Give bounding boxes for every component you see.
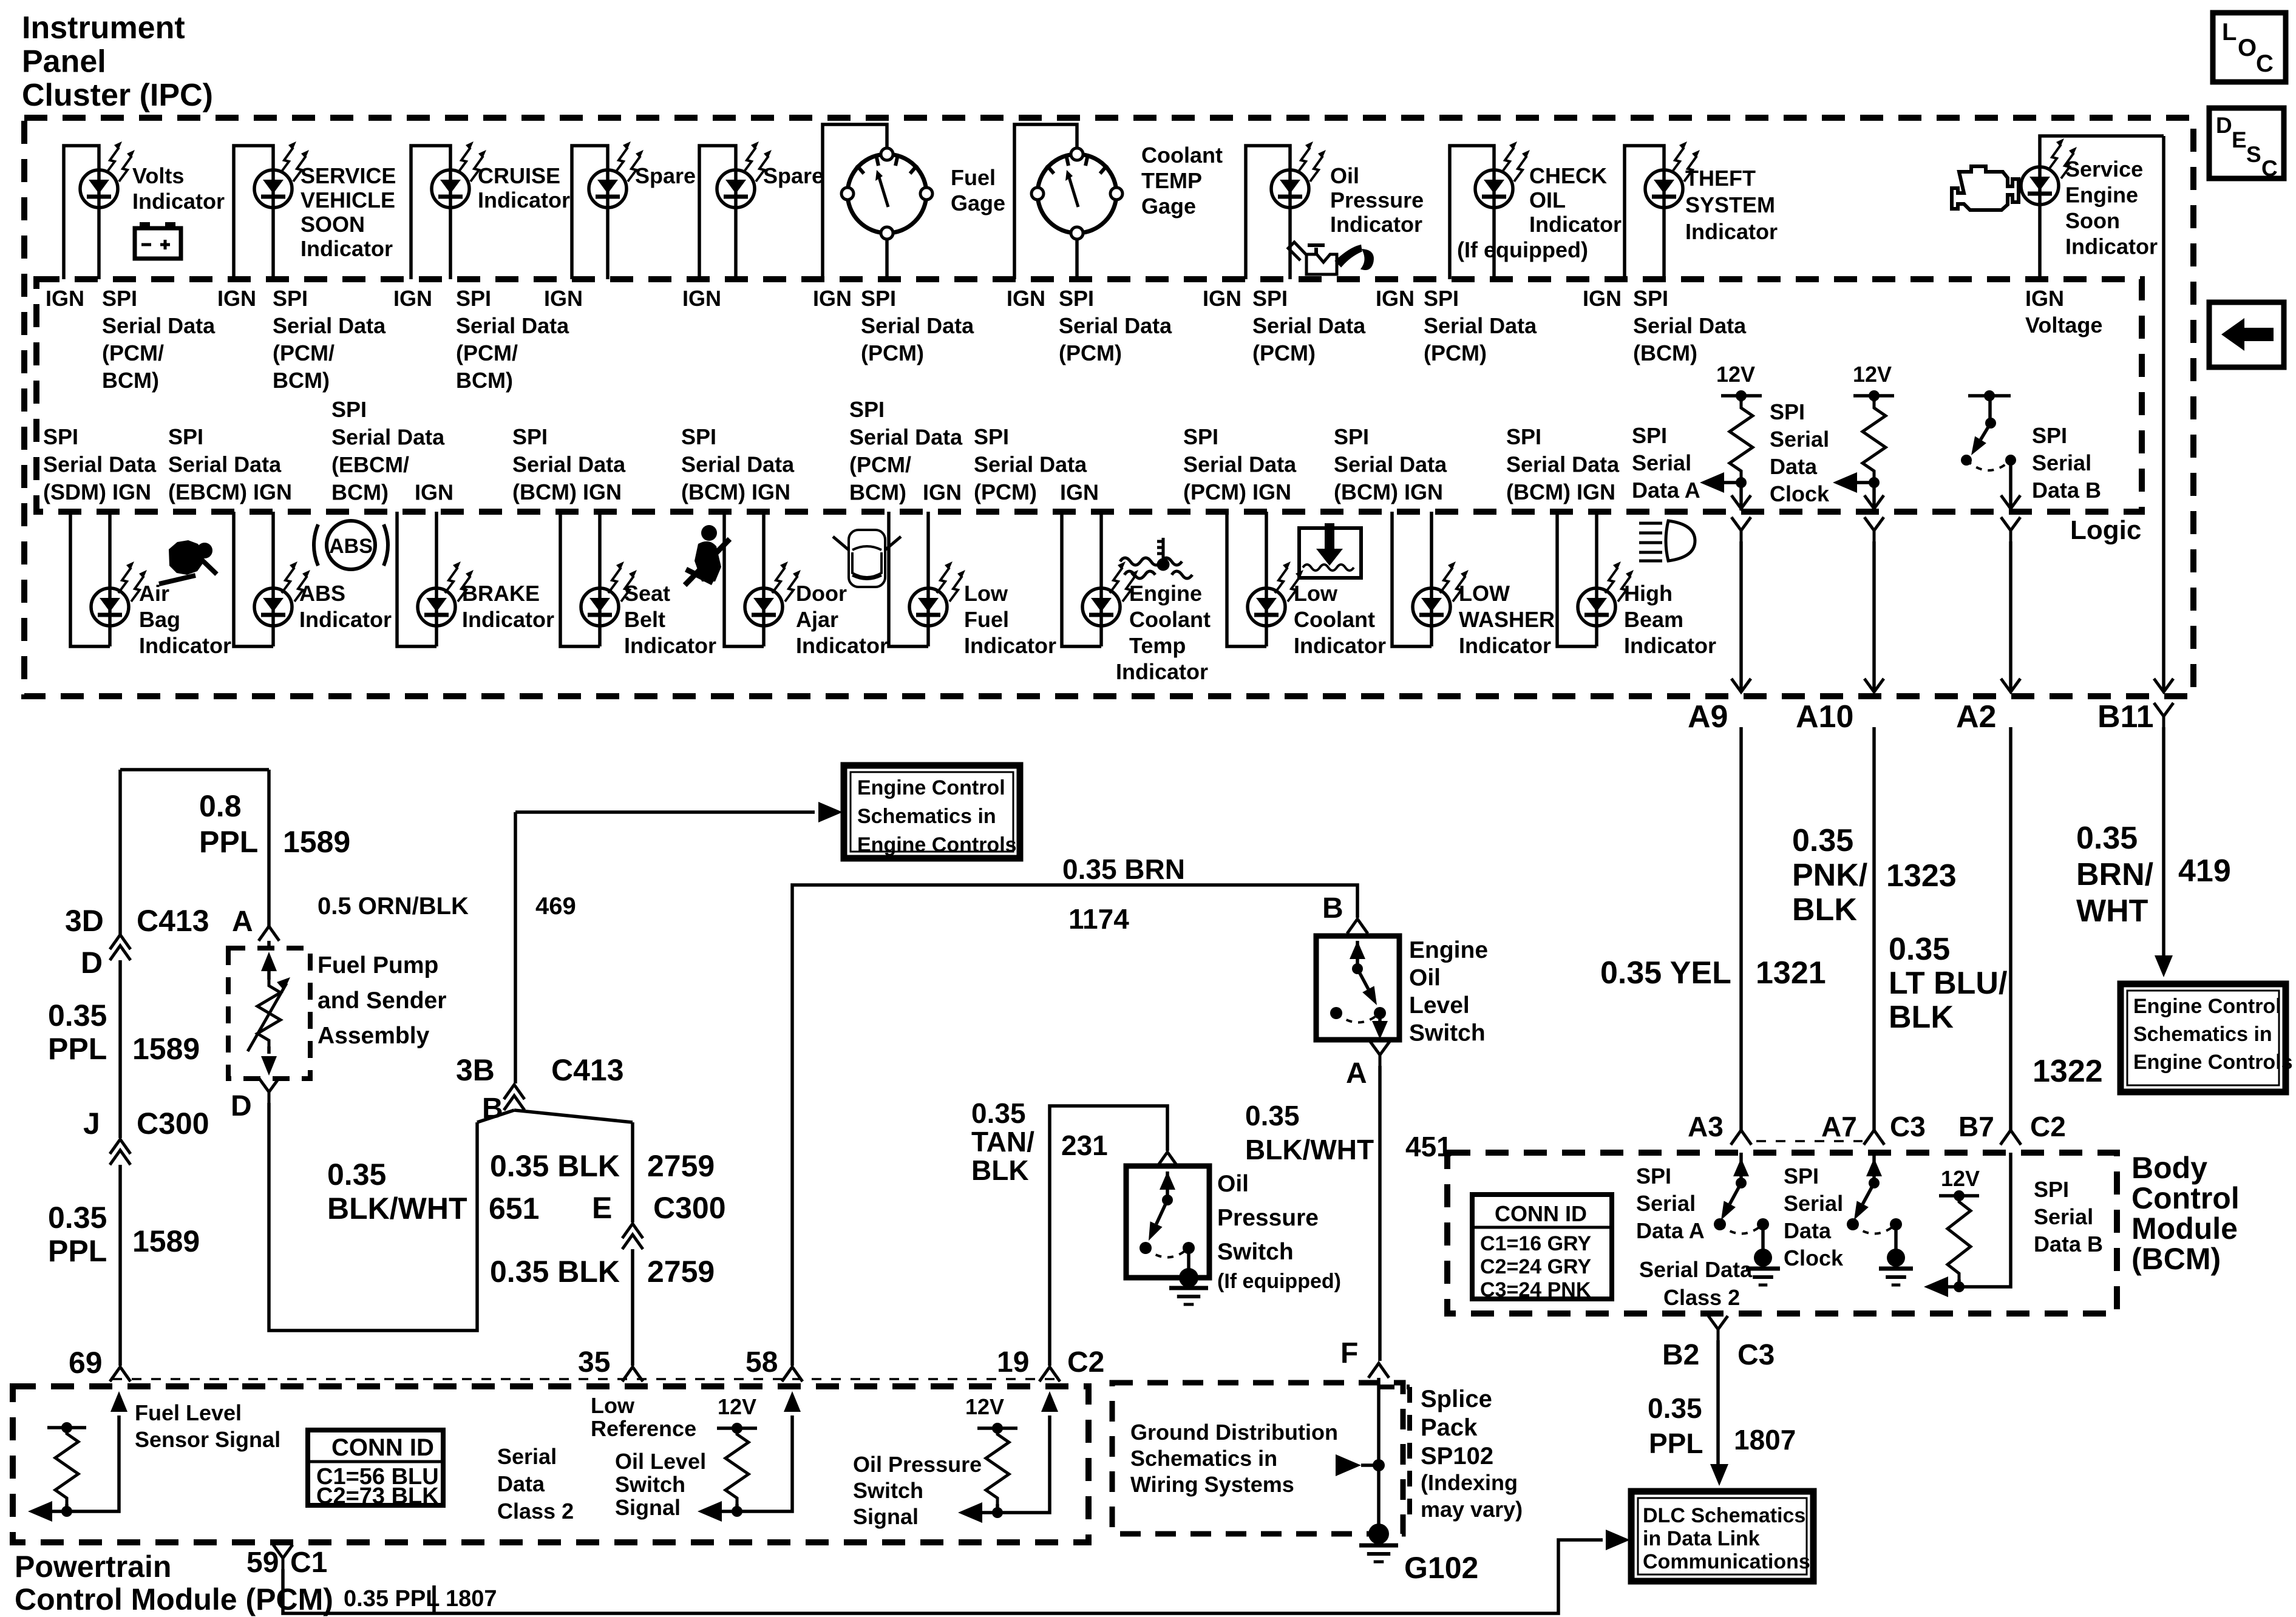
wire bracket Air Bag Indicator <box>70 512 110 646</box>
svg-text:IGN: IGN <box>1060 480 1099 505</box>
svg-text:Panel: Panel <box>22 44 106 80</box>
svg-text:C300: C300 <box>653 1191 726 1225</box>
wire 0.35 TAN/BLK 231 <box>1050 1106 1167 1366</box>
svg-text:BCM): BCM) <box>273 368 330 393</box>
svg-text:PPL: PPL <box>199 825 258 859</box>
wire 1807 PPL from BCM to DLC <box>1716 1340 1720 1457</box>
svg-text:(PCM): (PCM) <box>1252 341 1316 365</box>
svg-text:IGN: IGN <box>1007 286 1045 311</box>
svg-text:(BCM) IGN: (BCM) IGN <box>512 480 622 504</box>
svg-text:Indicator: Indicator <box>1116 659 1208 684</box>
svg-text:Serial Data: Serial Data <box>681 452 795 477</box>
svg-text:Schematics in: Schematics in <box>857 805 996 828</box>
svg-text:Soon: Soon <box>2065 208 2120 233</box>
LED Service Engine Soon <box>2021 167 2059 205</box>
LED Engine Coolant Temp Indicator <box>1082 588 1120 626</box>
LED ABS Indicator <box>254 588 292 626</box>
high beam icon <box>1639 521 1695 561</box>
svg-text:Data: Data <box>497 1471 545 1496</box>
svg-text:Coolant: Coolant <box>1129 607 1211 632</box>
svg-text:Ajar: Ajar <box>796 607 838 632</box>
svg-text:C: C <box>2261 156 2278 181</box>
svg-text:69: 69 <box>69 1346 103 1380</box>
wire bracket CHECK OIL Indicator <box>1450 146 1494 279</box>
wire 1807 label tick <box>432 1585 436 1613</box>
svg-text:SPI: SPI <box>1784 1164 1819 1188</box>
svg-text:0.35 BRN: 0.35 BRN <box>1062 853 1185 885</box>
battery icon <box>135 222 181 259</box>
svg-text:B11: B11 <box>2097 699 2154 734</box>
svg-text:C3: C3 <box>1737 1339 1775 1371</box>
wire fuel pump branch vertical <box>267 770 271 926</box>
svg-text:Signal: Signal <box>853 1504 919 1529</box>
svg-text:SOON: SOON <box>301 212 365 237</box>
wire A10 down <box>1872 483 1876 510</box>
svg-text:0.35: 0.35 <box>1792 823 1853 858</box>
oil pressure switch contacts <box>1160 1171 1175 1190</box>
wire bracket Volts Indicator <box>64 146 99 279</box>
svg-text:Gage: Gage <box>951 191 1005 215</box>
wire bracket Service Engine Soon Indicator <box>2040 136 2164 279</box>
svg-text:Serial Data: Serial Data <box>1252 313 1366 338</box>
svg-text:Fuel Pump: Fuel Pump <box>318 952 438 978</box>
svg-text:0.35: 0.35 <box>1889 932 1950 967</box>
svg-text:Oil Pressure: Oil Pressure <box>853 1452 982 1477</box>
svg-text:WASHER: WASHER <box>1459 607 1555 632</box>
svg-text:Engine Control: Engine Control <box>857 776 1005 799</box>
svg-text:IGN: IGN <box>46 286 84 311</box>
svg-text:Pressure: Pressure <box>1330 188 1424 212</box>
svg-text:Serial Data: Serial Data <box>1639 1257 1753 1282</box>
svg-text:SPI: SPI <box>1636 1164 1671 1188</box>
switch Serial Data Clock (in BCM) <box>1872 1153 1876 1183</box>
svg-text:B: B <box>1322 892 1343 924</box>
pin 59 connector <box>273 1545 293 1569</box>
svg-text:Belt: Belt <box>624 607 665 632</box>
IPC logic dashed box <box>36 279 2142 512</box>
ground Serial Data Clock <box>1894 1224 1898 1252</box>
svg-text:0.35 PPL: 0.35 PPL <box>344 1586 440 1612</box>
LED Spare indicator 2 <box>717 170 755 208</box>
svg-text:CHECK: CHECK <box>1529 163 1607 188</box>
wire 0.8 PPL bridge <box>120 768 269 771</box>
svg-text:Level: Level <box>1409 992 1470 1019</box>
lightning CRUISE Indicator <box>458 141 486 181</box>
svg-text:SPI: SPI <box>1334 424 1369 449</box>
svg-text:Serial Data: Serial Data <box>43 452 157 477</box>
ABS icon <box>314 521 388 569</box>
svg-text:SPI: SPI <box>512 424 548 449</box>
lightning THEFT SYSTEM Indicator <box>1671 141 1700 181</box>
wire A10 to BCM <box>1872 727 1876 1130</box>
svg-text:SPI: SPI <box>1632 423 1667 448</box>
svg-text:Body: Body <box>2131 1151 2207 1185</box>
wire B11 vertical (IGN voltage feed) <box>2162 136 2165 690</box>
svg-text:F: F <box>1340 1337 1358 1369</box>
svg-text:0.35: 0.35 <box>327 1158 386 1192</box>
svg-text:WHT: WHT <box>2076 893 2148 929</box>
svg-text:CONN ID: CONN ID <box>331 1434 434 1461</box>
svg-text:Serial Data: Serial Data <box>1183 452 1297 477</box>
svg-text:TEMP: TEMP <box>1141 168 1202 193</box>
svg-text:C300: C300 <box>137 1107 209 1141</box>
svg-text:Spare: Spare <box>635 163 696 188</box>
wire 0.8 PPL 1589 left vertical <box>118 770 122 935</box>
svg-text:Engine: Engine <box>2065 183 2138 208</box>
engine icon <box>1952 166 2019 210</box>
svg-text:CRUISE: CRUISE <box>478 163 560 188</box>
svg-text:E: E <box>592 1191 612 1225</box>
svg-text:A: A <box>1346 1057 1367 1090</box>
wire 451 into splice pack <box>1377 1378 1381 1530</box>
svg-text:Serial Data: Serial Data <box>861 313 974 338</box>
svg-text:THEFT: THEFT <box>1685 166 1756 191</box>
svg-text:C2: C2 <box>1067 1346 1104 1378</box>
svg-text:1322: 1322 <box>2033 1054 2103 1089</box>
svg-text:SPI: SPI <box>1633 286 1668 311</box>
fuel pump sender variable resistor <box>261 952 277 971</box>
svg-text:Control: Control <box>2131 1181 2240 1215</box>
lightning BRAKE Indicator <box>445 561 474 602</box>
svg-text:(PCM/: (PCM/ <box>102 341 164 365</box>
LED Seat Belt Indicator <box>581 588 619 626</box>
wire pin 19 internal <box>997 1415 1050 1513</box>
IPC outer dashed box <box>24 118 2193 696</box>
svg-text:Volts: Volts <box>132 163 184 188</box>
svg-text:Splice: Splice <box>1421 1386 1492 1412</box>
svg-text:Serial Data: Serial Data <box>273 313 386 338</box>
svg-text:C2=24 GRY: C2=24 GRY <box>1480 1255 1591 1278</box>
svg-text:IGN: IGN <box>217 286 256 311</box>
svg-text:ABS: ABS <box>329 535 373 558</box>
svg-text:3D: 3D <box>65 904 104 938</box>
svg-text:(EBCM) IGN: (EBCM) IGN <box>168 480 292 504</box>
svg-text:(SDM) IGN: (SDM) IGN <box>43 480 151 504</box>
svg-text:(PCM): (PCM) <box>974 480 1037 504</box>
wire 0.35 PPL 1589 (C413 to C300) <box>118 960 122 1138</box>
svg-text:Switch: Switch <box>615 1472 685 1497</box>
svg-text:Data B: Data B <box>2034 1232 2103 1256</box>
wire bracket Coolant TEMP Gage <box>1014 124 1077 279</box>
svg-text:SPI: SPI <box>2032 423 2067 448</box>
svg-text:IGN: IGN <box>2025 286 2064 311</box>
svg-text:1807: 1807 <box>446 1586 497 1612</box>
svg-text:Serial Data: Serial Data <box>849 425 963 450</box>
lightning Seat Belt Indicator <box>608 561 637 602</box>
svg-text:A9: A9 <box>1688 699 1728 734</box>
svg-text:IGN: IGN <box>813 286 852 311</box>
svg-text:Engine Control: Engine Control <box>2133 995 2281 1018</box>
svg-text:Data: Data <box>1770 454 1818 479</box>
svg-text:2759: 2759 <box>647 1255 715 1289</box>
wire bracket Spare indicator 1 <box>572 146 608 279</box>
LED Low Fuel Indicator <box>909 588 947 626</box>
oil can icon <box>1288 242 1372 274</box>
svg-text:and Sender: and Sender <box>318 988 446 1014</box>
svg-text:A7: A7 <box>1821 1111 1857 1142</box>
svg-text:Low: Low <box>591 1393 635 1418</box>
svg-text:Voltage: Voltage <box>2025 313 2102 337</box>
LED THEFT SYSTEM Indicator <box>1645 170 1683 208</box>
svg-text:Clock: Clock <box>1770 481 1830 506</box>
svg-text:Serial: Serial <box>2032 450 2091 475</box>
wire 0.35 BRN 1174 <box>792 885 1357 1366</box>
svg-text:Indicator: Indicator <box>301 236 393 261</box>
svg-text:SPI: SPI <box>102 286 137 311</box>
svg-text:CONN ID: CONN ID <box>1495 1201 1587 1226</box>
LED Volts Indicator <box>80 170 118 208</box>
svg-text:A3: A3 <box>1688 1111 1724 1142</box>
lightning Service Engine Soon <box>2048 138 2077 178</box>
wire bracket BRAKE Indicator <box>397 512 436 646</box>
svg-text:S: S <box>2246 142 2261 167</box>
svg-text:Indicator: Indicator <box>462 607 554 632</box>
PCM CONN ID box <box>308 1430 443 1509</box>
svg-text:E: E <box>2232 127 2247 152</box>
svg-text:BRN/: BRN/ <box>2076 857 2153 892</box>
splice pack dashed corner <box>1379 1387 1410 1517</box>
gauge Coolant TEMP Gage <box>1031 148 1123 239</box>
wire pin 58 internal <box>737 1415 792 1511</box>
svg-text:IGN: IGN <box>682 286 721 311</box>
svg-text:Serial: Serial <box>1636 1191 1696 1216</box>
svg-text:59: 59 <box>246 1547 279 1579</box>
LED SERVICE VEHICLE SOON Indicator <box>254 170 292 208</box>
svg-text:Indicator: Indicator <box>478 188 570 212</box>
svg-text:Logic: Logic <box>2070 515 2141 545</box>
connector oil pressure switch pin <box>1157 1152 1178 1167</box>
svg-text:651: 651 <box>489 1192 539 1225</box>
svg-text:Fuel: Fuel <box>951 165 996 190</box>
svg-text:BCM): BCM) <box>456 368 513 393</box>
svg-text:Powertrain: Powertrain <box>15 1550 171 1584</box>
wire A2 vertical <box>2001 517 2020 541</box>
svg-text:B7: B7 <box>1958 1111 1994 1142</box>
resistor SPI Serial Data Clock pull-up <box>1872 396 1876 402</box>
svg-text:Service: Service <box>2065 157 2143 181</box>
pin 69 connector <box>110 1367 131 1381</box>
svg-text:Indicator: Indicator <box>1685 219 1778 244</box>
svg-text:Indicator: Indicator <box>796 633 888 658</box>
pin B2 connector <box>1708 1316 1728 1340</box>
svg-text:419: 419 <box>2178 853 2231 889</box>
svg-text:12V: 12V <box>1941 1166 1980 1191</box>
svg-text:OIL: OIL <box>1529 188 1566 212</box>
svg-text:Sensor Signal: Sensor Signal <box>135 1427 280 1452</box>
svg-text:Serial: Serial <box>1770 427 1829 452</box>
svg-text:Oil: Oil <box>1330 163 1359 188</box>
wire bracket LOW WASHER Indicator <box>1392 512 1432 646</box>
svg-text:SPI: SPI <box>974 424 1009 449</box>
wire bracket Low Fuel Indicator <box>889 512 928 646</box>
svg-text:(Indexing: (Indexing <box>1421 1470 1518 1495</box>
svg-text:Coolant: Coolant <box>1294 607 1375 632</box>
Ground Distribution dashed box <box>1112 1383 1403 1534</box>
svg-text:Switch: Switch <box>853 1478 923 1503</box>
svg-text:C: C <box>2256 50 2274 77</box>
back arrow box <box>2209 302 2284 367</box>
svg-text:Serial Data: Serial Data <box>456 313 569 338</box>
svg-text:SPI: SPI <box>1252 286 1288 311</box>
svg-text:Schematics in: Schematics in <box>2133 1023 2272 1046</box>
svg-text:Reference: Reference <box>591 1416 696 1441</box>
svg-text:Indicator: Indicator <box>624 633 716 658</box>
svg-text:IGN: IGN <box>415 480 453 505</box>
svg-text:BLK/WHT: BLK/WHT <box>327 1192 467 1225</box>
air bag icon <box>159 540 217 584</box>
svg-text:Engine: Engine <box>1129 581 1202 606</box>
wire A2 to BCM <box>2009 727 2012 1130</box>
svg-text:IGN: IGN <box>1203 286 1241 311</box>
wire bracket Spare indicator 2 <box>699 146 736 279</box>
BCM CONN ID box <box>1472 1195 1612 1301</box>
svg-text:SPI: SPI <box>1183 424 1218 449</box>
svg-text:SPI: SPI <box>1506 424 1541 449</box>
lightning SERVICE VEHICLE SOON Indicator <box>280 141 309 181</box>
svg-text:A: A <box>232 906 253 938</box>
junction + arrow Serial Data Clock <box>1843 477 1874 483</box>
svg-text:SPI: SPI <box>849 397 885 422</box>
svg-text:Serial Data: Serial Data <box>1059 313 1172 338</box>
svg-text:469: 469 <box>535 893 576 920</box>
PCM connector thin dashed line <box>112 1378 1056 1380</box>
svg-text:(BCM) IGN: (BCM) IGN <box>1506 480 1615 504</box>
svg-text:TAN/: TAN/ <box>971 1126 1034 1158</box>
svg-text:C3: C3 <box>1890 1111 1926 1142</box>
Engine Control Schematics box (upper) <box>844 765 1020 858</box>
resistor SPI Serial Data A pull-up <box>1739 396 1743 402</box>
lightning Low Fuel Indicator <box>937 561 965 602</box>
arrow oil pressure switch signal <box>968 1511 997 1514</box>
svg-text:Indicator: Indicator <box>1330 212 1422 237</box>
svg-text:C1: C1 <box>290 1547 327 1579</box>
12V rail stub A9 <box>1721 394 1762 398</box>
svg-text:C3=24 PNK: C3=24 PNK <box>1480 1278 1591 1301</box>
svg-text:12V: 12V <box>1853 362 1892 387</box>
connector fuel pump pin D <box>259 1079 279 1103</box>
svg-text:Engine Controls: Engine Controls <box>2133 1051 2293 1074</box>
wire 451 BLK/WHT down to splice <box>1378 1066 1382 1361</box>
svg-text:BLK: BLK <box>971 1154 1029 1186</box>
wire bracket Low Coolant Indicator <box>1227 512 1266 646</box>
svg-text:Switch: Switch <box>1409 1020 1486 1046</box>
lightning High Beam Indicator <box>1605 561 1634 602</box>
svg-text:Module: Module <box>2131 1212 2238 1246</box>
wire 2759 BLK vertical <box>631 1122 634 1222</box>
svg-text:Engine: Engine <box>1409 937 1488 963</box>
svg-text:Gage: Gage <box>1141 194 1196 219</box>
ground G102 <box>1368 1524 1389 1544</box>
LED Door Ajar Indicator <box>745 588 783 626</box>
svg-text:SPI: SPI <box>43 424 78 449</box>
svg-text:High: High <box>1624 581 1673 606</box>
resistor oil pressure pull-up (in PCM) <box>986 1428 1009 1504</box>
svg-text:SPI: SPI <box>1059 286 1094 311</box>
fuel level sensor resistor (in PCM) <box>47 1426 86 1429</box>
svg-text:SPI: SPI <box>1770 399 1805 424</box>
fuel pump and sender dashed box <box>228 948 310 1079</box>
svg-text:Data: Data <box>1784 1218 1832 1243</box>
svg-text:Serial Data: Serial Data <box>331 425 445 450</box>
svg-text:Low: Low <box>964 581 1008 606</box>
svg-text:C2=73 BLK: C2=73 BLK <box>316 1483 439 1509</box>
svg-text:Bag: Bag <box>139 607 180 632</box>
svg-text:Serial: Serial <box>1784 1191 1843 1216</box>
svg-text:DLC Schematics: DLC Schematics <box>1643 1504 1805 1527</box>
svg-text:Serial Data: Serial Data <box>1334 452 1447 477</box>
svg-text:Serial Data: Serial Data <box>512 452 626 477</box>
svg-text:IGN: IGN <box>1376 286 1415 311</box>
svg-text:3B: 3B <box>456 1053 495 1087</box>
svg-text:Assembly: Assembly <box>318 1023 430 1049</box>
BCM connector thin dashed line <box>1756 1140 1863 1142</box>
svg-text:Indicator: Indicator <box>964 633 1056 658</box>
wire A9 to BCM <box>1739 727 1743 1130</box>
lightning LOW WASHER Indicator <box>1440 561 1469 602</box>
wire 469 ORN/BLK vertical <box>514 812 517 1083</box>
switch SPI Serial Data B (in IPC) <box>1968 394 2011 398</box>
svg-text:Wiring Systems: Wiring Systems <box>1130 1472 1294 1497</box>
12V rail stub BCM <box>1939 1194 1979 1198</box>
svg-text:12V: 12V <box>718 1394 756 1419</box>
engine oil level switch contacts <box>1350 941 1365 959</box>
svg-text:35: 35 <box>578 1346 610 1378</box>
svg-text:VEHICLE: VEHICLE <box>301 188 395 212</box>
svg-text:(PCM): (PCM) <box>1059 341 1122 365</box>
svg-text:Data B: Data B <box>2032 478 2101 503</box>
svg-text:IGN: IGN <box>923 480 962 505</box>
svg-text:LOW: LOW <box>1459 581 1510 606</box>
svg-text:Indicator: Indicator <box>1529 212 1622 237</box>
wire 0.35 PPL 1589 (C300 to PCM 69) <box>118 1165 122 1366</box>
svg-text:BLK/WHT: BLK/WHT <box>1245 1134 1374 1165</box>
svg-text:IGN: IGN <box>544 286 583 311</box>
svg-text:Control Module (PCM): Control Module (PCM) <box>15 1582 333 1616</box>
svg-text:SPI: SPI <box>168 424 203 449</box>
LED CRUISE Indicator <box>432 170 469 208</box>
svg-text:1321: 1321 <box>1756 955 1826 991</box>
svg-text:Oil: Oil <box>1409 965 1441 991</box>
svg-text:Door: Door <box>796 581 847 606</box>
svg-text:Data A: Data A <box>1632 478 1700 503</box>
svg-text:Instrument: Instrument <box>22 10 185 46</box>
svg-text:Serial Data: Serial Data <box>974 452 1087 477</box>
svg-text:Low: Low <box>1294 581 1338 606</box>
svg-text:Indicator: Indicator <box>132 189 225 214</box>
svg-text:(PCM/: (PCM/ <box>849 452 911 477</box>
svg-text:1589: 1589 <box>283 825 350 859</box>
svg-text:may vary): may vary) <box>1421 1497 1523 1522</box>
LED LOW WASHER Indicator <box>1413 588 1450 626</box>
junction + arrow Serial Data A <box>1710 477 1741 483</box>
svg-text:Schematics in: Schematics in <box>1130 1446 1277 1471</box>
svg-text:Indicator: Indicator <box>2065 234 2158 259</box>
svg-text:Oil: Oil <box>1217 1171 1249 1197</box>
svg-text:Serial Data: Serial Data <box>102 313 216 338</box>
wire 651 from pump D <box>269 1103 477 1331</box>
lightning CHECK OIL Indicator <box>1501 141 1530 181</box>
svg-text:Clock: Clock <box>1784 1246 1844 1270</box>
svg-text:C2: C2 <box>2030 1111 2066 1142</box>
Oil Pressure Switch box <box>1126 1166 1209 1278</box>
svg-text:(BCM): (BCM) <box>1633 341 1697 365</box>
svg-text:Pack: Pack <box>1421 1414 1478 1441</box>
car door ajar icon <box>833 530 901 587</box>
svg-text:A10: A10 <box>1796 699 1853 734</box>
svg-text:(BCM): (BCM) <box>2131 1242 2221 1276</box>
svg-text:(PCM): (PCM) <box>861 341 924 365</box>
wire A9 down <box>1739 483 1743 510</box>
